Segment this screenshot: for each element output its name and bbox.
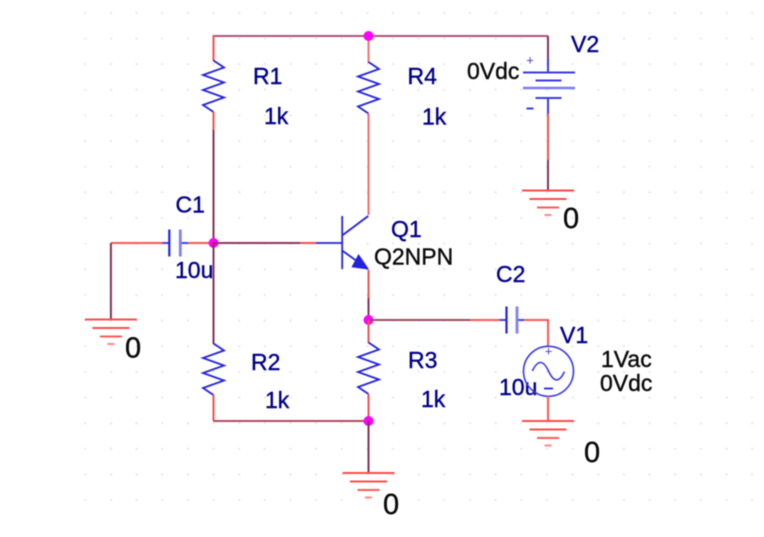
svg-text:R1: R1 [253,63,282,89]
wire R4 top lead [368,35,370,63]
wire emitter node to C2 [369,319,471,321]
svg-text:1k: 1k [422,104,447,130]
svg-text:V2: V2 [571,31,599,57]
wire V2 bottom lead [547,98,549,114]
wire input stem down [110,243,112,320]
wire R1 bottom to base node [213,112,215,130]
svg-text:1k: 1k [421,386,446,412]
voltage source V2 [523,53,575,109]
wire base node to Q1 [214,242,301,244]
svg-text:R2: R2 [251,349,280,375]
resistor R4 [358,62,379,114]
svg-text:10u: 10u [175,257,213,283]
svg-text:R3: R3 [408,347,437,373]
wire R4 bottom to collector [368,114,370,216]
resistor R1 [203,61,224,113]
svg-text:Q1: Q1 [391,216,422,242]
ground input [85,320,137,345]
node emitter junction [364,315,374,325]
node top junction [364,31,374,41]
svg-text:+: + [545,344,553,359]
svg-text:Q2NPN: Q2NPN [374,244,453,270]
svg-text:1k: 1k [264,103,289,129]
ground center [343,473,395,498]
svg-text:0: 0 [383,489,399,521]
wire bottom horizontal [214,420,369,422]
svg-text:10u: 10u [499,374,537,400]
wire R2 bottom lead [213,395,215,421]
ground below V2 [522,191,574,216]
voltage source V1 [524,346,574,396]
node bottom junction [364,416,374,426]
svg-text:0: 0 [563,203,579,235]
resistor R3 [358,343,379,395]
svg-text:C2: C2 [496,261,525,287]
wire input to C1 [111,242,163,244]
wire R3 bottom lead [368,394,370,421]
svg-text:1Vac: 1Vac [601,346,652,372]
svg-text:+: + [526,53,534,68]
wire base node down to R2 [213,243,215,344]
wire bottom node to ground [368,421,370,473]
wire C2 to V1 [524,319,548,321]
wire emitter node down to R3 [368,320,370,343]
capacitor C1 pins and plates [162,242,169,244]
svg-text:V1: V1 [560,322,588,348]
wire V1 bottom lead [547,396,549,421]
wire V2 top lead [547,36,549,58]
resistor R2 [203,344,224,396]
transistor Q1 [316,216,368,269]
svg-text:0Vdc: 0Vdc [467,58,519,84]
svg-text:0: 0 [125,333,141,365]
wire emitter down [368,270,370,298]
wire R1 top lead [213,35,215,61]
capacitor C2 pins and plates [500,319,507,321]
wire top rail [214,35,549,37]
ground below V1 [522,421,574,446]
svg-text:1k: 1k [265,387,290,413]
node base junction [209,238,219,248]
svg-text:0Vdc: 0Vdc [600,370,652,396]
svg-text:0: 0 [584,437,600,469]
grid dots [84,12,753,501]
svg-text:C1: C1 [176,192,205,218]
svg-text:R4: R4 [408,63,438,89]
wire C1 to base node [188,242,214,244]
